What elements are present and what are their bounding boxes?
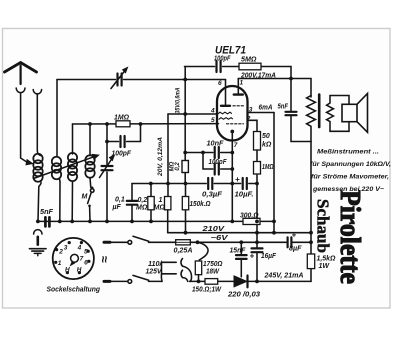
- coil L1: [33, 154, 42, 163]
- wire right rail x291 with 5nF: [291, 67, 311, 142]
- svg-text:7: 7: [234, 142, 238, 149]
- loudspeaker: [342, 104, 357, 121]
- svg-text:125V: 125V: [146, 269, 163, 276]
- svg-text:18W: 18W: [206, 269, 220, 276]
- svg-text:5nF: 5nF: [40, 209, 54, 216]
- socket pin labels: [58, 244, 88, 273]
- tube pin 4 wire and grid zigzag: [168, 113, 217, 115]
- svg-text:µF: µF: [112, 204, 122, 211]
- svg-text:1: 1: [240, 80, 244, 87]
- coil L2: [52, 157, 61, 166]
- antenna socket cup 1: [16, 88, 25, 93]
- wire antenna lead 2: [37, 94, 40, 156]
- svg-text:0,1: 0,1: [115, 197, 125, 204]
- tube pin 2 wire to 50k: [248, 120, 258, 131]
- svg-text:150.Ω;1W: 150.Ω;1W: [192, 287, 222, 294]
- tube cathode and pin 7: [230, 130, 234, 134]
- svg-text:10nF: 10nF: [207, 141, 225, 148]
- resistor 0.2M ohm: [150, 184, 152, 222]
- resistor 1M ohm (right): [256, 150, 258, 184]
- svg-text:H: H: [77, 266, 82, 273]
- antenna socket cup 2: [33, 90, 41, 94]
- svg-text:für Ströme Mavometer,: für Ströme Mavometer,: [311, 174, 389, 181]
- svg-text:20V, 0,12mA: 20V, 0,12mA: [158, 137, 164, 177]
- svg-text:1W: 1W: [319, 263, 331, 270]
- svg-text:150k.Ω: 150k.Ω: [190, 201, 211, 208]
- socket pin dots: [54, 241, 90, 274]
- trimmer capacitor C-trim1: [116, 74, 118, 86]
- resistor 150 ohm 1W: [205, 279, 218, 285]
- tube grid zigzag (pin5 level): [219, 118, 233, 120]
- resistor 1M ohm (top left): [116, 121, 130, 127]
- svg-text:35V/0,6mA: 35V/0,6mA: [176, 88, 182, 114]
- selector cups: [181, 259, 183, 267]
- svg-text:8µF: 8µF: [289, 246, 302, 253]
- svg-text:+: +: [250, 252, 255, 261]
- svg-text:M: M: [82, 194, 88, 201]
- svg-text:5nF: 5nF: [278, 104, 289, 111]
- svg-text:MΩ: MΩ: [136, 205, 148, 212]
- tube pin 1 lead and anode bar: [237, 79, 239, 94]
- svg-text:200V,17mA: 200V,17mA: [240, 72, 276, 79]
- svg-text:210V: 210V: [201, 226, 226, 233]
- svg-text:Pirolette: Pirolette: [334, 190, 366, 284]
- wire rectifier row y281.4: [190, 280, 311, 282]
- svg-text:Sockelschaltung: Sockelschaltung: [47, 285, 101, 294]
- capacitor 5nF bottom-left: [44, 217, 47, 226]
- tube socket circle: [53, 238, 94, 279]
- output transformer primary winding: [307, 96, 316, 142]
- ground symbol: [34, 230, 42, 234]
- svg-text:1: 1: [58, 260, 62, 267]
- resistor 1750 ohm 18W: [195, 261, 201, 275]
- measurement note block: [310, 149, 391, 194]
- svg-text:0,2: 0,2: [175, 162, 181, 171]
- resistor 300 ohm on bus: [243, 218, 260, 224]
- capacitor 0.1uF on left drop: [131, 184, 133, 201]
- transformer secondary winding: [327, 96, 334, 132]
- svg-text:2: 2: [58, 248, 63, 255]
- switch S1: [128, 240, 132, 244]
- wire antenna lead 1: [21, 93, 28, 163]
- capacitor 10nF: [214, 147, 216, 158]
- wire grid row y79.5: [57, 79, 226, 81]
- tube UEL71 envelope: [217, 86, 248, 141]
- tube pin 3 wire: [248, 112, 275, 114]
- capacitor 100pF top: [215, 61, 217, 72]
- svg-text:100pF: 100pF: [112, 151, 132, 158]
- main bus y221.4: [38, 220, 274, 222]
- svg-text:6: 6: [218, 80, 222, 87]
- svg-text:110/: 110/: [148, 261, 163, 268]
- tube grid dashed (upper): [233, 105, 244, 107]
- capacitor 100pF left loop: [107, 124, 141, 142]
- svg-text:0,3µF: 0,3µF: [202, 192, 223, 199]
- svg-text:15nF: 15nF: [230, 248, 247, 255]
- svg-text:1MΩ: 1MΩ: [114, 115, 130, 122]
- wire top-left corner to coil L2: [56, 80, 58, 157]
- wire vertical screen feed x185.2: [184, 67, 186, 184]
- hop curve from fuse junction to 1750 ohm: [198, 242, 209, 260]
- svg-text:3: 3: [64, 244, 68, 251]
- svg-text:3: 3: [249, 107, 253, 114]
- mains lead bottom: [104, 280, 110, 283]
- svg-text:kΩ: kΩ: [262, 142, 272, 149]
- capacitor 16uF electrolytic: [252, 247, 263, 249]
- svg-text:1,5kΩ: 1,5kΩ: [317, 256, 337, 263]
- switch S2: [128, 280, 132, 284]
- variometer arrow: [34, 156, 96, 178]
- resistor 0.2M ohm on screen rail: [182, 161, 188, 173]
- svg-text:100pF: 100pF: [209, 159, 228, 166]
- svg-text:Schaub: Schaub: [314, 199, 333, 253]
- svg-text:10µF.: 10µF.: [235, 192, 254, 199]
- svg-text:MΩ: MΩ: [154, 205, 166, 212]
- svg-text:100pF: 100pF: [214, 56, 231, 63]
- svg-text:6: 6: [84, 259, 88, 266]
- wire A top y66.5: [185, 66, 292, 68]
- resistor 50k ohm: [254, 132, 261, 151]
- transformer core: [318, 95, 321, 128]
- tube pin 5 / coil row wire y124: [73, 123, 219, 125]
- svg-text:16µF: 16µF: [261, 253, 277, 260]
- resistor 5M ohm box: [239, 63, 261, 70]
- wire 210V row y232.7: [168, 232, 311, 234]
- switch M: [90, 189, 94, 193]
- selenium rectifier 220/0.03: [234, 276, 247, 287]
- capacitor 0.3uF: [207, 178, 209, 189]
- svg-text:1750Ω: 1750Ω: [203, 261, 223, 268]
- svg-text:Meßinstrument ...: Meßinstrument ...: [317, 149, 379, 156]
- selector right links to lamp resistor: [183, 266, 192, 281]
- rail x257 down: [256, 184, 258, 282]
- wire secondary to speaker: [330, 96, 349, 132]
- svg-text:1: 1: [159, 197, 163, 204]
- wire 10nF row y152.5: [185, 152, 232, 154]
- wire -6V row y242.3: [149, 241, 312, 243]
- wire B anode row y78.5: [238, 79, 311, 98]
- svg-text:5MΩ: 5MΩ: [241, 57, 257, 64]
- voltage selector 110/125V: [161, 262, 176, 281]
- svg-text:300.Ω: 300.Ω: [240, 213, 259, 220]
- svg-text:1MΩ: 1MΩ: [262, 164, 274, 171]
- svg-text:≈: ≈: [98, 256, 112, 263]
- trimmer capacitor C-trim2: [106, 124, 108, 164]
- coil L3: [72, 124, 74, 154]
- rail x311 transformer return: [310, 142, 312, 282]
- svg-text:−6V: −6V: [211, 235, 230, 242]
- tube pin 6 lead and anode bar: [225, 80, 227, 106]
- capacitor 8uF: [287, 237, 289, 247]
- capacitor 5nF right: [286, 111, 297, 113]
- svg-text:4: 4: [77, 244, 82, 251]
- svg-text:5: 5: [211, 117, 215, 124]
- svg-text:MΩ: MΩ: [170, 161, 176, 171]
- svg-text:+: +: [235, 175, 240, 184]
- svg-text:H: H: [65, 266, 70, 273]
- antenna: [5, 63, 37, 73]
- capacitor 10uF: [242, 178, 244, 189]
- svg-text:4: 4: [210, 108, 215, 115]
- svg-text:für Spannungen 10kΩ/V,: für Spannungen 10kΩ/V,: [310, 161, 391, 168]
- wire bias row y183.5: [132, 183, 257, 185]
- svg-text:245V, 21mA: 245V, 21mA: [263, 273, 303, 280]
- svg-text:2: 2: [246, 116, 251, 123]
- svg-text:220 /0,03: 220 /0,03: [227, 292, 260, 299]
- socket center key: [71, 254, 79, 262]
- resistor 1M ohm (middle): [167, 114, 169, 233]
- svg-text:50: 50: [262, 133, 270, 140]
- resistor 1.5k ohm 1W: [307, 254, 314, 269]
- svg-text:+: +: [292, 231, 297, 240]
- mains lead top: [104, 241, 110, 244]
- resistor 150k ohm: [185, 184, 187, 233]
- svg-text:7: 7: [80, 255, 84, 262]
- capacitor 100pF cathode loop: [203, 153, 232, 170]
- tube grid dashed (lower): [227, 123, 244, 125]
- brand Pirolette rotated: [314, 190, 367, 284]
- capacitor 15nF: [240, 242, 242, 254]
- svg-text:5: 5: [84, 248, 88, 255]
- rail x274 pin3 down: [273, 113, 275, 233]
- svg-text:6mA: 6mA: [259, 105, 273, 112]
- coil L4: [89, 124, 91, 156]
- svg-text:0,2: 0,2: [138, 197, 148, 204]
- tube pin labels: [210, 80, 253, 150]
- svg-text:0,25A: 0,25A: [174, 248, 193, 255]
- fuse 0.25A: [176, 240, 191, 245]
